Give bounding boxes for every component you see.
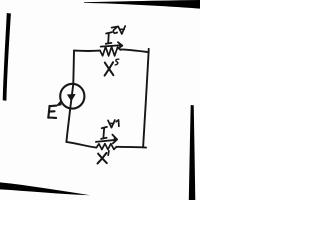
- resistor XS zigzag (top): [100, 47, 120, 56]
- wire bottom-right segment: [117, 146, 146, 149]
- label X (top resistor): [105, 62, 114, 75]
- label I (bottom): [101, 127, 107, 139]
- label subscript A (flipped, reads as inverted A): [108, 120, 115, 128]
- page-edge mark bottom-left: [0, 182, 90, 195]
- wire left side upper: [72, 51, 75, 84]
- source E line through circle: [70, 84, 73, 109]
- resistor X1 zigzag (bottom): [96, 144, 116, 150]
- wire right side: [143, 49, 149, 148]
- page-edge mark left: [3, 13, 11, 101]
- label X (bottom resistor): [98, 153, 107, 164]
- wire top-right segment: [120, 49, 148, 52]
- source E arrowhead: [67, 94, 75, 100]
- current arrow IA2 (top): [101, 45, 122, 46]
- label E: [48, 106, 56, 118]
- label subscript A (flipped, reads as inverted A): [118, 26, 125, 34]
- current arrow IA1 (bottom): [96, 140, 116, 142]
- wire left side lower: [66, 109, 70, 142]
- wire top-left segment: [74, 50, 100, 52]
- page-edge mark top: [84, 0, 200, 9]
- label subscript 1 glyph: [116, 120, 119, 126]
- label E vector arrowhead: [56, 101, 62, 107]
- source E circle: [60, 84, 84, 109]
- label subscript 2 (flipped, reads as inverted 2): [112, 27, 118, 34]
- label X subscript tick: [107, 151, 110, 155]
- label I (top): [106, 32, 112, 44]
- wire bottom-left segment: [66, 142, 96, 148]
- label X superscript s: [115, 59, 119, 65]
- page-edge mark right: [189, 105, 196, 200]
